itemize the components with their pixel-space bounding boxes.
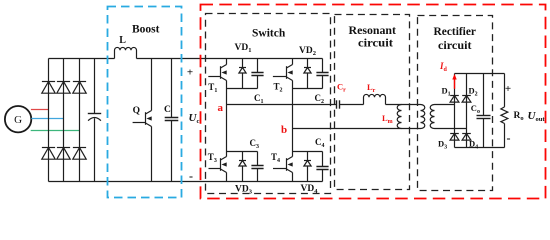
diode VD3 bbox=[242, 152, 244, 161]
diode D3 bbox=[450, 133, 459, 135]
svg-text:b: b bbox=[281, 124, 287, 136]
rectifier diode bottom leg 3 bbox=[73, 147, 86, 149]
current arrow Id bbox=[454, 78, 456, 89]
capacitor C3 bbox=[257, 152, 259, 166]
svg-text:Q: Q bbox=[133, 106, 140, 116]
capacitor C2 bbox=[322, 59, 324, 73]
Boost dashed box bbox=[108, 7, 182, 198]
capacitor Co bbox=[483, 74, 485, 116]
svg-text:-: - bbox=[507, 131, 511, 145]
wire rectifier left leg bbox=[454, 74, 456, 148]
wire phase red bbox=[31, 109, 49, 111]
capacitor C4 bbox=[322, 152, 324, 167]
Resonant circuit dashed box bbox=[335, 15, 410, 190]
wire phase blue bbox=[31, 118, 63, 120]
wire bridge leg 1 bbox=[48, 59, 50, 182]
inductor Lm bbox=[397, 105, 401, 129]
wire T2 cell bottom bbox=[293, 88, 323, 90]
svg-text:Rectifier: Rectifier bbox=[434, 26, 477, 38]
wire Lr to transformer bbox=[386, 104, 421, 106]
svg-text:Boost: Boost bbox=[132, 24, 160, 36]
wire T3 cell top bbox=[227, 151, 258, 153]
svg-text:-: - bbox=[189, 169, 193, 183]
capacitor Cr bbox=[336, 100, 338, 108]
generator G bbox=[5, 106, 31, 132]
wire bridge leg 3 bbox=[79, 59, 81, 182]
diode VD2 bbox=[307, 59, 309, 68]
svg-text:circuit: circuit bbox=[438, 40, 472, 52]
rectifier diode bottom leg 2 bbox=[57, 147, 70, 149]
capacitor C (boost) bbox=[171, 59, 173, 118]
wire rectifier top rail bbox=[455, 73, 505, 75]
capacitor C1 bbox=[257, 59, 259, 73]
wire top DC rail bbox=[49, 58, 115, 60]
wire secondary top bbox=[435, 104, 455, 106]
wire left bridge leg (node a) bbox=[226, 89, 228, 152]
svg-text:L: L bbox=[119, 35, 126, 46]
Switch dashed box bbox=[206, 14, 331, 194]
inductor L bbox=[115, 47, 137, 58]
diode VD1 bbox=[242, 59, 244, 68]
diode VD4 bbox=[307, 152, 309, 161]
transformer secondary bbox=[430, 105, 434, 129]
diode D2 bbox=[462, 95, 471, 97]
svg-text:Resonant: Resonant bbox=[349, 25, 397, 37]
rectifier diode top leg 3 bbox=[73, 81, 86, 83]
wire rectifier right leg bbox=[466, 74, 468, 148]
wire bottom DC rail bbox=[49, 181, 323, 183]
wire T1 cell bottom bbox=[227, 88, 258, 90]
wire bridge leg 2 bbox=[63, 59, 65, 182]
resistor Ro bbox=[504, 74, 506, 107]
rectifier diode top leg 1 bbox=[42, 81, 55, 83]
rectifier diode bottom leg 1 bbox=[42, 147, 55, 149]
transistor Q bbox=[151, 59, 153, 111]
wire node a to Cr bbox=[227, 104, 337, 106]
inductor Lr bbox=[364, 94, 386, 104]
diode D4 bbox=[462, 133, 471, 135]
svg-text:+: + bbox=[505, 83, 511, 95]
svg-text:a: a bbox=[218, 102, 224, 114]
svg-text:G: G bbox=[14, 114, 22, 126]
rectifier diode top leg 2 bbox=[57, 81, 70, 83]
wire phase green bbox=[31, 130, 80, 132]
wire T4 cell top bbox=[293, 151, 323, 153]
svg-text:+: + bbox=[187, 67, 193, 79]
svg-text:C: C bbox=[164, 105, 171, 115]
transformer primary bbox=[421, 105, 425, 129]
Rectifier circuit dashed box bbox=[418, 16, 493, 191]
svg-text:circuit: circuit bbox=[358, 37, 393, 49]
wire right bridge leg (node b) bbox=[292, 89, 294, 152]
transistor T2 bbox=[292, 59, 294, 65]
wire node b to transformer bbox=[293, 128, 421, 130]
transistor T3 bbox=[226, 152, 228, 157]
wire Cr to Lr bbox=[340, 104, 364, 106]
capacitor DC filter (polarized) bbox=[94, 59, 96, 114]
transistor T4 bbox=[292, 152, 294, 157]
wire secondary bottom bbox=[435, 128, 467, 130]
svg-text:Switch: Switch bbox=[252, 27, 286, 39]
transistor T1 bbox=[226, 59, 228, 65]
diode D1 bbox=[450, 95, 459, 97]
outer red dashed box bbox=[201, 5, 546, 199]
wire rectifier bottom rail bbox=[455, 147, 505, 149]
